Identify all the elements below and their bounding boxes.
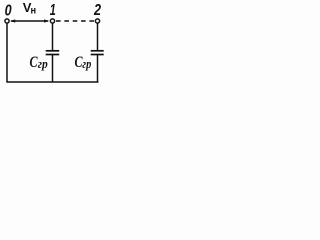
dimension arrow Vн between node 0 and node 1 xyxy=(10,19,49,22)
wire: node 1 down to capacitor C1 top xyxy=(52,23,54,50)
capacitor Cгр (right) plates xyxy=(91,51,104,55)
svg-text:гр: гр xyxy=(82,56,91,71)
node 1 terminal circle xyxy=(50,19,54,23)
wire: capacitor C1 bottom lead to rail xyxy=(52,55,54,83)
svg-text:0: 0 xyxy=(5,3,12,20)
node 0 terminal circle xyxy=(5,19,9,23)
wire: dashed line node 1 to node 2 xyxy=(56,20,94,22)
svg-text:гр: гр xyxy=(38,56,48,71)
wire: left vertical from node 0 down xyxy=(6,23,8,81)
svg-text:2: 2 xyxy=(93,2,101,19)
wire: node 2 down to capacitor C2 top xyxy=(97,23,99,50)
wire: capacitor C2 bottom lead to rail xyxy=(97,55,99,83)
svg-text:н: н xyxy=(31,5,37,17)
node 2 terminal circle xyxy=(95,19,99,23)
svg-text:C: C xyxy=(30,54,38,71)
capacitor Cгр (left) plates xyxy=(46,51,60,55)
wire: bottom horizontal rail xyxy=(6,81,98,83)
svg-text:1: 1 xyxy=(50,2,56,19)
